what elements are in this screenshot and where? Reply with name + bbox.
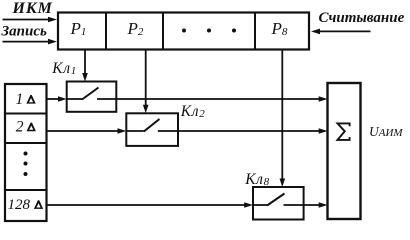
left block dots: [24, 152, 28, 156]
register block (shift register): [58, 13, 309, 50]
divider 2/dots: [5, 142, 47, 144]
switch Кл8 input contact: [253, 204, 267, 206]
svg-text:Считывание: Считывание: [319, 10, 405, 26]
wire 128Δ to Кл8 (arrow right): [47, 204, 246, 206]
wire Запись input arrow: [3, 41, 50, 43]
wire P8 to Кл8 (vertical, arrow down): [281, 50, 283, 180]
divider P2/dots: [162, 13, 164, 50]
switch Кл1 box: [67, 82, 117, 112]
svg-text:UАИМ: UАИМ: [369, 124, 403, 139]
switch Кл2 lever: [144, 119, 160, 132]
wire Кл2 to summator (arrow right): [178, 130, 320, 132]
switch Кл1 output contact: [97, 98, 116, 100]
summator block: [328, 83, 361, 219]
divider 1/2: [5, 113, 47, 115]
wire P2 to Кл2 (vertical, arrow down): [145, 50, 147, 106]
switch Кл2 input contact: [126, 130, 144, 132]
register dots: [182, 29, 186, 33]
wire 1Δ to Кл1 (arrow right): [47, 98, 60, 100]
svg-text:ИКМ: ИКМ: [12, 0, 53, 17]
switch Кл2 box: [126, 113, 178, 146]
svg-text:128: 128: [8, 197, 31, 213]
summator Σ symbol: [338, 123, 350, 139]
wire P1 to Кл1 (vertical, arrow down): [84, 50, 86, 74]
wire ИКМ input arrow: [3, 19, 50, 21]
svg-text:Запись: Запись: [1, 23, 47, 39]
svg-text:1: 1: [16, 91, 24, 108]
wire Считывание input arrow: [319, 30, 371, 32]
wire Кл8 to summator (arrow right): [304, 204, 320, 206]
switch Кл1 input contact: [67, 98, 82, 100]
switch Кл1 lever: [82, 88, 99, 100]
divider P1/P2: [105, 13, 107, 50]
divider dots/128: [5, 189, 47, 191]
switch Кл8 lever: [267, 194, 285, 206]
switch Кл8 box: [253, 187, 304, 220]
switch Кл8 output contact: [284, 204, 304, 206]
left delta block: [5, 84, 47, 221]
switch Кл2 output contact: [158, 130, 178, 132]
divider dots/P8: [254, 13, 256, 50]
svg-text:2: 2: [16, 118, 24, 135]
wire Кл1 to summator (arrow right): [116, 98, 320, 100]
wire 2Δ to Кл2 (arrow right): [47, 130, 119, 132]
